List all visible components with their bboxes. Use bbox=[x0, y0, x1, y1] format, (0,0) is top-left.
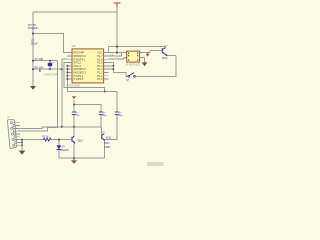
ground arrow module bbox=[142, 62, 148, 66]
transistor Q1 bbox=[72, 136, 75, 142]
wire resistor row6 right to Q1 base bbox=[51, 139, 72, 141]
transistor Q3 bbox=[162, 48, 167, 56]
wire module right pin1 to Q3 base bbox=[145, 51, 163, 53]
wire bottom rail bbox=[59, 157, 105, 159]
svg-text:U?: U? bbox=[72, 44, 76, 48]
node dot x33 y69.2 bbox=[32, 68, 34, 70]
node dot resistor junction bbox=[58, 139, 60, 141]
wire from node at y33.5 to IC pin1 bbox=[33, 34, 67, 53]
node dot line2 x61.8 bbox=[61, 68, 63, 70]
svg-text:R? 10K: R? 10K bbox=[35, 57, 44, 61]
wire x61.8 pin3 down to rail bbox=[62, 59, 67, 127]
node dot x104.7 y91.5 bbox=[104, 91, 106, 93]
wire x117 crystal branch bbox=[116, 92, 118, 112]
wire bus pins5-9 bbox=[67, 66, 117, 92]
wire DB9 gnd tie vertical bbox=[21, 140, 23, 151]
junction dots DB9 gnd tie bbox=[21, 139, 23, 147]
node dot x117 y52.6 bbox=[116, 52, 118, 54]
connector J1 pin circles bbox=[10, 122, 17, 147]
svg-text:Q?: Q? bbox=[101, 131, 105, 134]
wire Q2 emitter down bbox=[104, 141, 106, 159]
node dot x74 y158 bbox=[73, 157, 75, 159]
IR module right pins bbox=[140, 53, 145, 58]
svg-text:R? 10K: R? 10K bbox=[35, 66, 44, 70]
svg-text:AT89C2051: AT89C2051 bbox=[67, 83, 82, 87]
VCC power bar top bbox=[114, 3, 121, 7]
svg-text:0.1uF: 0.1uF bbox=[31, 41, 38, 45]
capacitor C polarized reset bbox=[48, 63, 53, 66]
node dot cap C bottom bbox=[49, 68, 51, 70]
power symbol brown x74 bbox=[72, 96, 76, 99]
node dot x33 y60.7 bbox=[32, 60, 34, 62]
ground arrow left x33 bbox=[30, 86, 36, 90]
junction dots right bus bbox=[112, 65, 114, 70]
svg-text:9013: 9013 bbox=[162, 57, 168, 60]
IC pins right bbox=[104, 53, 109, 79]
title block fragment bottom right bbox=[147, 162, 164, 166]
wire x74 vcc chain upper bbox=[73, 100, 75, 112]
svg-text:R? 1K: R? 1K bbox=[42, 136, 49, 139]
wire IC right pin1 to module bbox=[109, 52, 127, 54]
svg-text:IR MODULE: IR MODULE bbox=[126, 63, 140, 66]
switch S1 bbox=[128, 75, 130, 77]
svg-text:1N4148: 1N4148 bbox=[60, 149, 69, 152]
wire cap C vertical bbox=[49, 61, 51, 64]
svg-text:9013: 9013 bbox=[78, 140, 84, 143]
node dot x61.8 y126.8 bbox=[61, 126, 63, 128]
svg-text:9013: 9013 bbox=[106, 137, 112, 140]
wire Q1 emitter to bottom rail bbox=[73, 143, 75, 158]
node dot x74 y126.8 bbox=[73, 126, 75, 128]
resistor R1 bbox=[43, 138, 51, 141]
wire left vertical GND net bbox=[32, 12, 34, 86]
wire resistor row6 left bbox=[18, 139, 44, 141]
IC right pin labels bbox=[97, 51, 103, 81]
power arrow red module bbox=[146, 54, 149, 57]
wire top rail bbox=[33, 11, 117, 13]
IC pins left bbox=[67, 53, 72, 79]
label U2 pins inside bbox=[128, 53, 138, 61]
capacitor C2 x101 bbox=[99, 112, 103, 115]
svg-text:9012: 9012 bbox=[104, 142, 110, 145]
wire switch right to Q3 emitter net bbox=[135, 56, 176, 77]
transistor Q2 bbox=[102, 134, 105, 140]
capacitor C3 x117 bbox=[115, 112, 119, 115]
wire VCC stem bbox=[116, 4, 118, 53]
diode D1 bbox=[57, 145, 62, 149]
wire collector net y46.5 bbox=[108, 46, 165, 48]
connector J1 DB9 body bbox=[7, 120, 16, 149]
wire cap2 to rail bbox=[100, 115, 102, 127]
wire x74 below cap1 bbox=[73, 115, 75, 136]
capacitor C1 x74 bbox=[72, 112, 76, 115]
wire reset line1 bbox=[33, 60, 58, 62]
wire module right pin2 down bbox=[144, 58, 146, 63]
node dot cap C top bbox=[49, 60, 51, 62]
node dot x33 y33.5 bbox=[32, 32, 34, 34]
wire x58 to DB9 row4 bbox=[18, 61, 58, 132]
wire node74 right to cap2 bbox=[74, 105, 101, 113]
wire Q3 collector stub bbox=[165, 47, 167, 48]
svg-text:P1.0: P1.0 bbox=[97, 77, 103, 81]
IC U1 body bbox=[72, 49, 104, 83]
ground arrow DB9 bbox=[19, 151, 25, 155]
ground arrow x74 bottom bbox=[71, 160, 77, 164]
node dot x74 y104.5 bbox=[73, 104, 75, 106]
wire rail y126.8 to DB9 row3 bbox=[18, 127, 101, 129]
wire right pins bus to switch bbox=[109, 55, 122, 57]
junction dots bus pins5-9 bbox=[66, 65, 68, 80]
svg-text:1/4W7C05R: 1/4W7C05R bbox=[44, 73, 58, 76]
svg-text:C945: C945 bbox=[104, 146, 110, 149]
IC left pin labels bbox=[73, 51, 86, 81]
wire reset line2 bbox=[33, 68, 62, 70]
node dot x117 y46.5 bbox=[116, 45, 118, 47]
connector J1 pin stubs bbox=[12, 123, 22, 145]
wire Q2 collector bbox=[101, 127, 103, 134]
wire Q2 emitter to x117 bbox=[105, 139, 107, 141]
IR module U2 body bbox=[127, 51, 140, 62]
wire diode branch bbox=[58, 140, 60, 146]
svg-text:(T1)P3.5: (T1)P3.5 bbox=[73, 77, 84, 81]
wire A pin4 to crystal right bbox=[64, 63, 105, 92]
svg-text:POWER: POWER bbox=[28, 26, 38, 30]
wire Q3 emitter horizontal bbox=[167, 55, 176, 57]
tiny blue mark below line2 bbox=[39, 70, 40, 72]
wire stub bus top to pin1 bbox=[107, 47, 109, 53]
